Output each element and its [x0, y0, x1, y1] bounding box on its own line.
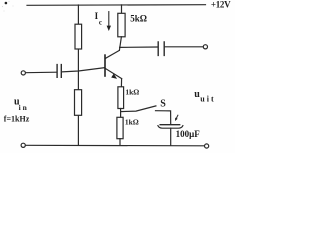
svg-text:5kΩ: 5kΩ: [130, 14, 147, 24]
svg-text:+12V: +12V: [211, 0, 231, 10]
svg-text:uit: uit: [200, 95, 216, 104]
svg-text:100μF: 100μF: [176, 129, 201, 139]
svg-text:1kΩ: 1kΩ: [125, 87, 139, 96]
svg-text:f=1kHz: f=1kHz: [4, 115, 30, 124]
svg-text:c: c: [99, 18, 102, 26]
svg-text:in: in: [19, 103, 29, 112]
svg-text:1kΩ: 1kΩ: [125, 117, 139, 126]
svg-text:S: S: [160, 98, 166, 109]
